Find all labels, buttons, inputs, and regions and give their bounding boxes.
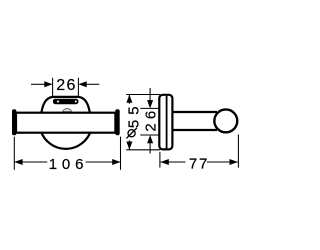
svg-text:26: 26 bbox=[56, 77, 77, 94]
svg-text:26: 26 bbox=[143, 107, 160, 132]
svg-text:106: 106 bbox=[49, 156, 88, 173]
svg-text:55: 55 bbox=[126, 101, 143, 128]
svg-text:77: 77 bbox=[189, 156, 209, 173]
